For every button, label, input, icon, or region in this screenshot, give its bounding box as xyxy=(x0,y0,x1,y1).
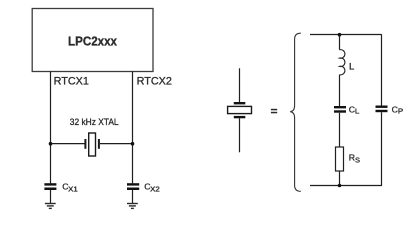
resistor RS xyxy=(336,147,344,171)
svg-text:L: L xyxy=(355,107,360,116)
svg-text:S: S xyxy=(355,156,360,165)
ground (below CX1) xyxy=(45,203,56,209)
wire between CL and RS xyxy=(339,113,341,147)
svg-text:LPC2xxx: LPC2xxx xyxy=(68,33,118,48)
svg-text:P: P xyxy=(398,107,404,116)
node junction dot bottom xyxy=(338,184,342,188)
svg-text:X1: X1 xyxy=(68,184,78,193)
crystal X1 (32 kHz XTAL) xyxy=(84,133,100,156)
wire top (equivalent circuit) xyxy=(310,34,382,36)
equals sign xyxy=(271,109,277,114)
capacitor CP xyxy=(376,106,388,113)
ground (below CX2) xyxy=(127,203,138,209)
wire bottom (equivalent circuit) xyxy=(310,185,382,187)
svg-text:X2: X2 xyxy=(150,184,160,193)
crystal symbol (standalone, equivalent-circuit left) xyxy=(228,68,252,152)
wire RTCX1 vertical xyxy=(50,72,52,184)
label CL xyxy=(349,104,360,115)
label CX2 xyxy=(144,182,159,194)
wire crystal left segment xyxy=(51,143,85,145)
label RS xyxy=(349,153,361,165)
svg-text:32 kHz XTAL: 32 kHz XTAL xyxy=(70,116,119,127)
wire RTCX2 vertical xyxy=(132,72,134,184)
node junction dot right (RTCX2/XTAL) xyxy=(131,142,135,146)
wire between L and CL xyxy=(339,75,341,107)
curly brace xyxy=(290,33,301,191)
capacitor CX2 xyxy=(127,183,139,203)
wire left branch upper xyxy=(339,35,341,50)
svg-text:L: L xyxy=(349,61,355,72)
capacitor CL xyxy=(334,106,346,113)
IC box U1 LPC2xxx xyxy=(32,9,153,72)
svg-text:RTCX2: RTCX2 xyxy=(137,75,172,87)
svg-text:RTCX1: RTCX1 xyxy=(54,75,89,87)
label CX1 xyxy=(62,182,77,194)
wire crystal right segment xyxy=(100,143,133,145)
node junction dot top xyxy=(338,33,342,37)
wire below RS xyxy=(339,171,341,186)
wire right branch upper xyxy=(381,34,383,105)
inductor L xyxy=(340,50,345,75)
label CP xyxy=(392,104,404,115)
capacitor CX1 xyxy=(44,183,56,203)
node junction dot left (RTCX1/XTAL) xyxy=(49,142,53,146)
wire right branch lower xyxy=(381,112,383,186)
